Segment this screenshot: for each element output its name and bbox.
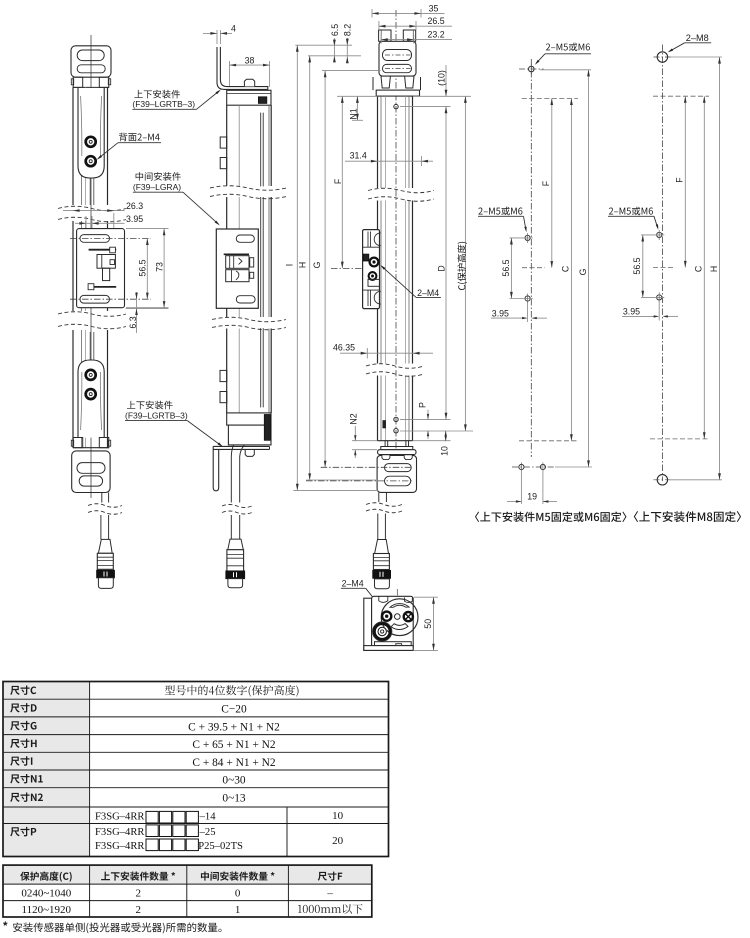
svg-text:50: 50: [423, 619, 433, 629]
view3 last beam holes: [394, 417, 398, 421]
dim P: [427, 410, 429, 420]
view2 top bolt knob: [244, 79, 254, 86]
table1 row label 尺寸G: [10, 721, 36, 730]
view1 bottom arm foot: [73, 438, 83, 448]
view5 dashed last-beam line: [650, 438, 709, 440]
view1 top bracket F39-LGRTB-3: [71, 46, 111, 77]
svg-text:(10): (10): [437, 70, 447, 86]
dim G: [324, 71, 326, 468]
svg-text:3.95: 3.95: [126, 214, 143, 224]
svg-text:3.95: 3.95: [492, 308, 509, 318]
dim 4: [216, 30, 218, 44]
section bottom plate: [375, 642, 412, 646]
svg-text:6.3: 6.3: [128, 316, 138, 328]
view4 mid dashed line: [522, 267, 545, 269]
dim I: [296, 45, 298, 490]
table2 header 尺寸F: [318, 872, 343, 881]
section main body: [372, 596, 414, 650]
dim 56.5 view5: [642, 235, 644, 298]
view3 bracket screws 2-M4: [370, 258, 379, 267]
view3 bottom face: [378, 440, 413, 442]
section screw right: [404, 612, 413, 621]
section M4 screw left: [382, 612, 391, 621]
svg-text:56.5: 56.5: [137, 259, 147, 276]
svg-text:C−20: C−20: [221, 704, 247, 716]
dim 35: [371, 9, 373, 18]
view3 bracket centerline ext: [331, 267, 363, 269]
view3 feet lower: [384, 441, 386, 447]
svg-text:F3SG–4RR: F3SG–4RR: [95, 827, 145, 838]
svg-text:56.5: 56.5: [501, 259, 511, 276]
view1 screw M4 lower-arm-2: [86, 389, 96, 399]
svg-text:0: 0: [235, 887, 241, 899]
svg-text:N2: N2: [348, 413, 358, 424]
dim C view5: [703, 96, 705, 439]
view3 bottom slot centerlines: [321, 466, 413, 468]
view3 break wavy lower: [366, 364, 424, 369]
view2 middle bracket side: [216, 229, 258, 308]
view1 sensor body edges: [72, 87, 74, 205]
section center hole: [395, 614, 401, 620]
view4 dashed last-beam line: [519, 440, 578, 442]
svg-text:(F39–LGRTB–3): (F39–LGRTB–3): [132, 99, 195, 109]
section top arc slot: [390, 604, 409, 608]
svg-text:0~13: 0~13: [222, 793, 246, 805]
label rear 2-M4: [119, 133, 160, 142]
svg-text:P25–02TS: P25–02TS: [198, 841, 243, 852]
dim H view5: [719, 57, 721, 480]
dim C (protective height): [464, 96, 466, 431]
view4 bottom holes (19mm apart): [519, 464, 524, 469]
view1 bracket slot centerlines: [70, 237, 151, 239]
dim H: [309, 56, 311, 480]
dim F view3: [341, 96, 343, 268]
view1 bottom bracket arm: [89, 332, 91, 360]
view4 centerline: [530, 59, 532, 457]
section base: [364, 646, 413, 651]
view4: M5/M6 mounting hole pattern: [478, 43, 592, 504]
svg-text:G: G: [312, 261, 322, 268]
dim 56.5 view1: [146, 238, 148, 299]
view1 screw M4 upper: [86, 137, 96, 147]
view2 lens window line: [260, 113, 262, 186]
svg-text:20: 20: [332, 835, 344, 847]
view2 top L-bracket: [217, 47, 268, 89]
svg-text:35: 35: [429, 3, 439, 13]
section centerline: [396, 589, 398, 597]
view2 top cap: [227, 90, 271, 105]
label middle bracket (F39-LGRA): [136, 172, 181, 181]
view1 screw M4 lower: [86, 156, 96, 166]
svg-text:38: 38: [245, 55, 255, 65]
svg-text:C: C: [561, 265, 571, 272]
svg-text:(F39–LGRA): (F39–LGRA): [133, 182, 181, 192]
dim ext lines top-left: [295, 44, 352, 46]
svg-text:56.5: 56.5: [632, 257, 642, 274]
dim 10: [413, 440, 451, 442]
svg-text:8.2: 8.2: [343, 24, 353, 36]
table2 cell 1000mm以下: [298, 904, 363, 914]
view5 centerline: [661, 45, 663, 482]
table1 value row C: [165, 685, 299, 697]
table1 row label 尺寸I: [10, 756, 32, 765]
dim 23.2: [380, 35, 382, 44]
label top bracket (F39-LGRTB-3): [134, 90, 180, 99]
label C(protective height): [457, 242, 467, 290]
dim 26.5: [378, 21, 380, 30]
table2 header 中间安装件数量*: [201, 872, 275, 881]
svg-text:3.95: 3.95: [623, 307, 640, 317]
view1 connector M12: [98, 539, 112, 553]
svg-text:F: F: [333, 178, 343, 184]
svg-text:H: H: [709, 266, 719, 272]
view5: M8 mounting hole pattern: [608, 33, 722, 485]
view3 break wavy upper: [368, 188, 434, 193]
view1 bottom bracket plate: [72, 451, 110, 493]
dim 38: [229, 61, 231, 86]
svg-text:6.5: 6.5: [330, 24, 340, 36]
view2 bottom cap: [227, 413, 271, 425]
view3 middle bracket side profile: [363, 230, 380, 309]
svg-text:D: D: [436, 265, 446, 271]
view1 top bracket arm: [78, 88, 104, 178]
svg-text:F: F: [674, 177, 684, 183]
svg-text:G: G: [578, 268, 588, 275]
section cable gland: [374, 624, 390, 640]
table 2: bracket quantities: [3, 865, 372, 884]
view3 bottom bracket: [377, 455, 416, 492]
view1 break wavy middle: [58, 312, 126, 317]
svg-text:0240~1040: 0240~1040: [21, 887, 71, 899]
view5 dashed first-beam line: [653, 95, 709, 97]
view2 bottom L-bracket: [213, 445, 269, 447]
dim 6.3 view1: [136, 292, 138, 333]
svg-text:2: 2: [135, 887, 141, 899]
svg-text:10: 10: [440, 446, 450, 456]
view3 centerline: [395, 10, 397, 474]
view2 side tabs lower: [220, 370, 227, 381]
dim 19: [520, 471, 522, 505]
view4 ext top (G): [540, 69, 591, 71]
svg-text:–25: –25: [199, 827, 216, 838]
view5 ext top (H): [670, 56, 722, 58]
svg-text:N1: N1: [349, 108, 359, 119]
svg-text:(F39–LGRTB–3): (F39–LGRTB–3): [125, 410, 188, 420]
svg-text:19: 19: [527, 492, 537, 502]
view5 middle holes: [657, 232, 662, 237]
svg-text:31.4: 31.4: [350, 150, 367, 160]
dim 56.5 view4: [510, 238, 512, 299]
dim 6.5: [333, 38, 335, 62]
view3 first beam hole: [394, 104, 398, 108]
dim N2: [352, 440, 378, 442]
svg-text:C + 65 + N1 + N2: C + 65 + N1 + N2: [192, 739, 275, 751]
svg-text:C + 39.5 + N1 + N2: C + 39.5 + N1 + N2: [188, 722, 280, 734]
svg-text:F: F: [541, 180, 551, 186]
svg-text:F3SG–4RR: F3SG–4RR: [95, 812, 145, 823]
dim G view4: [588, 70, 590, 467]
caption: M8 fixing: [634, 511, 741, 522]
svg-text:10: 10: [332, 810, 344, 822]
view3 top bracket tabs: [379, 30, 391, 41]
svg-text:–14: –14: [199, 812, 217, 823]
svg-text:4: 4: [231, 24, 236, 34]
view1 centerline: [90, 35, 92, 498]
view1 bracket clamp detail: [89, 249, 117, 251]
svg-text:C: C: [694, 265, 704, 272]
svg-text:F3SG–4RR: F3SG–4RR: [95, 841, 145, 852]
dim 3.95: [85, 216, 87, 232]
table 1: dimension formulas: [3, 682, 90, 857]
table1 row label 尺寸H: [10, 739, 36, 748]
view1 neck under top bracket: [73, 77, 83, 87]
view3 bracket lower flanges: [372, 77, 374, 90]
svg-text:1120~1920: 1120~1920: [22, 904, 72, 916]
section big circle: [381, 599, 418, 636]
view2 side tabs upper: [220, 137, 227, 148]
label 2-M5 or M6 (middle v4): [478, 207, 522, 216]
view3: front view with dimensions: [306, 10, 441, 589]
dim (10): [445, 65, 447, 96]
section left plate: [364, 598, 372, 650]
bottom section view: [341, 579, 438, 651]
table1 row label 尺寸C: [10, 686, 36, 695]
view3 top bracket: [379, 41, 416, 76]
dim N1: [337, 95, 378, 97]
view2 cable: [231, 445, 244, 503]
svg-text:26.3: 26.3: [126, 201, 143, 211]
table1 row label 尺寸P: [10, 827, 36, 836]
view3 cable: [378, 492, 380, 502]
dim 73 view1: [126, 228, 169, 230]
caption: M5/M6 fixing: [475, 512, 626, 522]
dim 8.2: [346, 38, 348, 62]
svg-text:0~30: 0~30: [222, 775, 246, 787]
view3 top cap: [376, 90, 419, 96]
view1: receiver front view: [58, 35, 169, 588]
view2 break wavy upper: [210, 186, 286, 191]
label bottom bracket (F39-LGRTB-3): [127, 401, 173, 410]
view2 connector M12: [228, 539, 244, 550]
table1 row label 尺寸D: [10, 703, 36, 712]
view3 feet upper: [381, 76, 390, 88]
svg-text:2–M4: 2–M4: [342, 579, 364, 589]
dim F view5: [684, 96, 686, 267]
view3 connector M12: [375, 540, 389, 554]
footnote: [3, 921, 7, 925]
view4 middle holes: [525, 235, 530, 240]
view5 top hole 2-M8: [657, 52, 667, 62]
svg-text:2–M8: 2–M8: [686, 33, 709, 43]
view1 cable: [101, 493, 103, 503]
svg-text:I: I: [284, 264, 294, 266]
table2 header 上下安装件数量*: [101, 872, 175, 881]
svg-text:H: H: [298, 262, 308, 268]
section bottom arc slot: [391, 624, 408, 630]
dim F view4: [551, 98, 553, 267]
view4 dashed first-beam line: [522, 97, 578, 99]
view2 body edges: [226, 105, 228, 186]
svg-text:–: –: [326, 887, 333, 899]
view3 label strip: [383, 421, 386, 429]
dim C view4: [570, 98, 572, 440]
dim ext lines bottom-left: [293, 489, 378, 491]
svg-text:1: 1: [235, 904, 241, 916]
svg-text:2: 2: [135, 904, 141, 916]
svg-text:P: P: [417, 402, 427, 408]
svg-text:73: 73: [154, 262, 164, 272]
dim D: [445, 107, 447, 420]
svg-text:23.2: 23.2: [428, 30, 445, 40]
view2: side view: [203, 24, 286, 588]
dim 50: [414, 596, 438, 598]
label 2-M5 or M6 (top): [546, 43, 590, 52]
svg-text:C + 84 + N1 + N2: C + 84 + N1 + N2: [192, 757, 275, 769]
view1 break wavy upper: [58, 206, 126, 211]
view4 top hole 2-M5/M6: [529, 66, 535, 72]
view3 body edges: [377, 96, 379, 188]
section corner tabs: [379, 596, 388, 602]
table1 row label 尺寸N1: [10, 774, 43, 783]
view1 screw M4 lower-arm-1: [86, 370, 96, 380]
svg-text:2–M4: 2–M4: [417, 288, 439, 298]
dim 26.3: [113, 213, 115, 235]
table2 header 保护高度(C): [20, 871, 71, 881]
svg-text:26.5: 26.5: [428, 16, 445, 26]
view5 bottom hole M8: [657, 475, 667, 485]
table1 row label 尺寸N2: [10, 793, 43, 802]
view1 middle bracket F39-LGRA: [77, 229, 125, 308]
label 2-M5 or M6 (middle v5): [609, 207, 653, 216]
view2 break wavy middle: [212, 317, 286, 322]
svg-text:46.35: 46.35: [333, 342, 355, 352]
